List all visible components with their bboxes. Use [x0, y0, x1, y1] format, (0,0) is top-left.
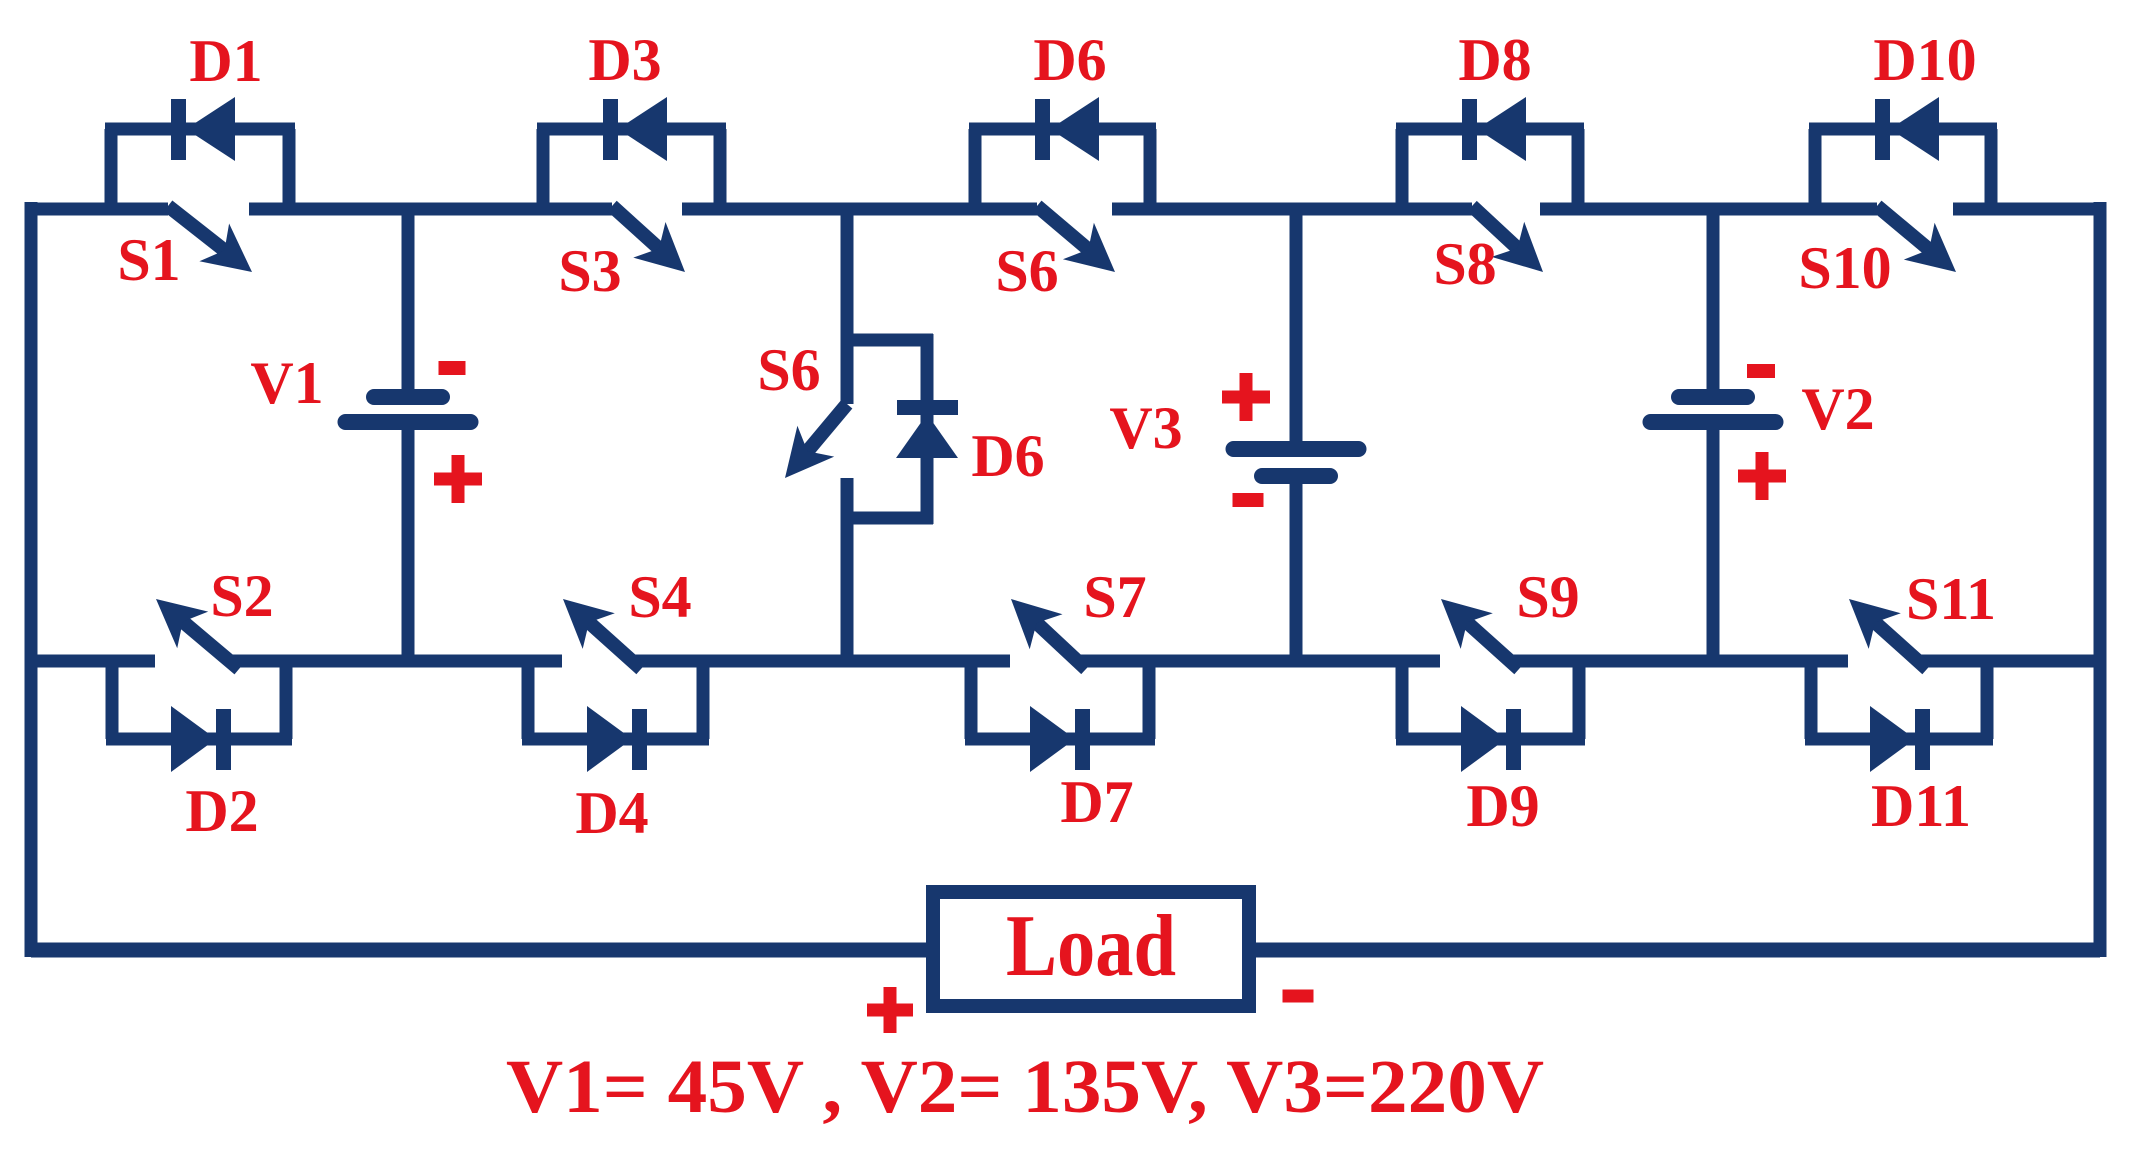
wire D6 loop top — [969, 123, 1156, 136]
switch S10 — [1877, 206, 1931, 251]
wire D11 loop left post — [1805, 661, 1818, 739]
diode D7 — [1030, 706, 1075, 772]
diode D1 — [171, 99, 186, 160]
wire middle branch lower — [841, 518, 854, 661]
svg-text:D9: D9 — [1466, 773, 1539, 839]
wire D3 loop left post — [537, 129, 550, 209]
wire D6 loop right post — [1144, 129, 1157, 209]
wire top rail segment 4 — [1112, 203, 1472, 216]
wire bottom rail right — [1252, 943, 2100, 958]
svg-text:V3: V3 — [1109, 395, 1182, 461]
wire D1 loop left post — [105, 129, 118, 209]
wire top rail segment 2 — [249, 203, 612, 216]
wire middle branch lower stub v — [841, 478, 854, 524]
wire D7 loop bottom — [965, 733, 1155, 746]
svg-text:D3: D3 — [588, 27, 661, 93]
wire top rail segment 1 — [31, 203, 168, 216]
svg-text:D1: D1 — [189, 28, 262, 94]
wire D9 loop bottom — [1396, 733, 1585, 746]
svg-text:D4: D4 — [575, 780, 648, 846]
load plus mark — [867, 1004, 913, 1017]
switch S6 — [806, 404, 847, 453]
svg-text:S6: S6 — [995, 238, 1058, 304]
svg-text:V2: V2 — [1801, 376, 1874, 442]
wire D6 loop left post — [969, 129, 982, 209]
switch S4 — [588, 621, 641, 669]
svg-text:S4: S4 — [628, 564, 691, 630]
V1 minus mark — [439, 361, 466, 375]
svg-text:D11: D11 — [1871, 773, 1971, 839]
wire middle branch bottom stub — [841, 512, 933, 525]
wire D9 loop right post — [1573, 661, 1586, 739]
wire D8 loop left post — [1396, 129, 1409, 209]
load minus mark — [1283, 990, 1314, 1003]
wire D3 loop top — [537, 123, 726, 136]
wire top rail segment 6 — [1953, 203, 2100, 216]
svg-text:D6: D6 — [971, 423, 1044, 489]
wire left edge — [25, 202, 38, 957]
battery V3 — [1290, 209, 1303, 443]
wire D10 loop right post — [1985, 129, 1998, 209]
diode D3 — [603, 99, 618, 160]
svg-text:D8: D8 — [1458, 27, 1531, 93]
switch S11 — [1874, 621, 1927, 669]
diode D6 — [1035, 99, 1050, 160]
wire middle branch top stub — [841, 334, 933, 347]
wire D3 loop right post — [714, 129, 727, 209]
svg-text:S1: S1 — [117, 227, 180, 293]
wire D11 loop bottom — [1805, 733, 1993, 746]
switch S8 — [1472, 206, 1519, 250]
diode D9 — [1461, 706, 1506, 772]
svg-text:S3: S3 — [558, 238, 621, 304]
wire D4 loop left post — [522, 661, 535, 739]
wire lower rail segment 1 — [31, 655, 155, 668]
switch S7 — [1035, 622, 1086, 669]
wire D2 loop right post — [280, 661, 293, 739]
diode D4 — [587, 706, 632, 772]
svg-text:S10: S10 — [1798, 235, 1891, 301]
V3 minus mark — [1233, 493, 1264, 507]
wire lower rail segment 5 — [1511, 655, 1848, 668]
svg-text:S6: S6 — [757, 337, 820, 403]
wire D9 loop left post — [1396, 661, 1409, 739]
switch S6 — [1037, 206, 1090, 251]
battery V1 — [402, 209, 415, 391]
svg-text:D2: D2 — [185, 778, 258, 844]
svg-text:S7: S7 — [1083, 564, 1146, 630]
V2 minus mark — [1747, 364, 1775, 378]
wire D2 loop left post — [106, 661, 119, 739]
svg-text:D6: D6 — [1033, 27, 1106, 93]
svg-text:S9: S9 — [1516, 564, 1579, 630]
V1 plus mark — [434, 473, 482, 486]
switch S1 — [168, 206, 226, 252]
V3 plus mark — [1222, 391, 1270, 404]
svg-text:S8: S8 — [1433, 231, 1496, 297]
wire lower rail segment 3 — [633, 655, 1010, 668]
svg-text:Load: Load — [1006, 898, 1176, 995]
wire middle branch upper — [841, 209, 854, 404]
svg-text:D7: D7 — [1060, 769, 1133, 835]
wire D10 loop top — [1809, 123, 1997, 136]
wire right edge — [2094, 202, 2107, 957]
wire D8 loop right post — [1572, 129, 1585, 209]
wire D4 loop right post — [697, 661, 710, 739]
diode D10 — [1875, 99, 1890, 160]
wire D7 loop left post — [965, 661, 978, 739]
wire D7 loop right post — [1143, 661, 1156, 739]
diode D11 — [1870, 706, 1915, 772]
wire D10 loop left post — [1809, 129, 1822, 209]
V2 plus mark — [1738, 470, 1786, 483]
wire lower rail segment 6 — [1919, 655, 2100, 668]
wire D8 loop top — [1396, 123, 1584, 136]
wire D1 loop right post — [283, 129, 296, 209]
wire D4 loop bottom — [522, 733, 709, 746]
wire D2 loop bottom — [106, 733, 292, 746]
wire D6 parallel post — [921, 334, 934, 524]
svg-text:S2: S2 — [210, 563, 273, 629]
wire D11 loop right post — [1981, 661, 1994, 739]
wire D1 loop top — [105, 123, 295, 136]
wire lower rail segment 2 — [231, 655, 562, 668]
wire lower rail segment 4 — [1078, 655, 1440, 668]
diode D6 — [897, 400, 958, 415]
switch S2 — [181, 620, 239, 669]
switch S9 — [1466, 621, 1519, 669]
switch S3 — [612, 206, 661, 250]
wire top rail segment 3 — [682, 203, 1037, 216]
wire top rail segment 5 — [1540, 203, 1877, 216]
wire bottom rail left — [31, 943, 930, 958]
diode D2 — [171, 706, 216, 772]
diode D8 — [1462, 99, 1477, 160]
load box — [933, 892, 1249, 1006]
svg-text:D10: D10 — [1873, 27, 1976, 93]
battery V2 — [1707, 209, 1720, 391]
svg-text:S11: S11 — [1906, 566, 1996, 632]
svg-text:V1: V1 — [250, 350, 323, 416]
svg-text:V1= 45V , V2= 135V, V3=220V: V1= 45V , V2= 135V, V3=220V — [506, 1045, 1544, 1129]
